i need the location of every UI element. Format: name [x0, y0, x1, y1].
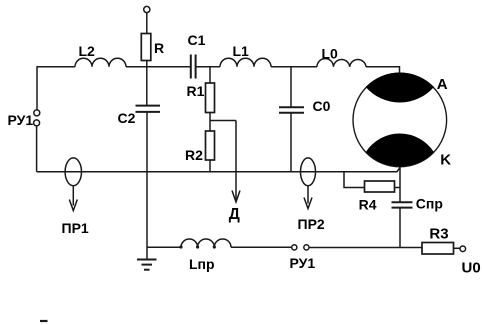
wire C0 to mid rail	[290, 113, 292, 172]
wire R4 to cathode line	[395, 187, 401, 189]
svg-text:K: K	[440, 151, 451, 168]
probe PR1 ellipse	[65, 158, 81, 186]
inductor L1	[220, 58, 271, 67]
svg-text:R1: R1	[187, 83, 205, 99]
inductor L0	[317, 59, 366, 67]
svg-text:R2: R2	[185, 147, 203, 163]
resistor R4 body	[365, 181, 395, 192]
wire top rail L0 to tube anode	[366, 67, 400, 74]
wire ground column	[146, 172, 148, 260]
wire R4 branch	[344, 172, 365, 188]
svg-text:Спр: Спр	[416, 195, 443, 211]
resistor R3 body	[422, 243, 454, 255]
svg-text:C2: C2	[118, 110, 136, 126]
resistor R body	[141, 34, 151, 61]
capacitor Cpr	[392, 202, 413, 207]
probe PR2 ellipse	[301, 158, 316, 186]
tube anode lens (filled)	[366, 73, 433, 102]
wire branch node D horizontal	[210, 120, 236, 122]
terminal circle PY1 upper	[34, 110, 40, 116]
wire bottom rail left segment	[147, 246, 181, 248]
arrow PR1	[69, 186, 77, 211]
svg-text:L2: L2	[79, 43, 96, 59]
terminal circle PY1 bottom left	[292, 245, 297, 250]
terminal circle PY1 lower	[34, 120, 40, 126]
resistor R terminal circle	[144, 6, 150, 12]
wire mid rail	[37, 168, 400, 172]
wire left vertical lower	[36, 126, 38, 172]
arrow PR2	[304, 186, 312, 209]
svg-text:Д: Д	[229, 206, 240, 223]
wire R body to top rail and down to C2	[146, 61, 148, 106]
resistor R2 body	[206, 131, 215, 160]
terminal circle PY1 bottom right	[304, 245, 309, 250]
junction dots Lpr	[179, 245, 216, 248]
inductor L2	[75, 58, 126, 67]
svg-text:РУ1: РУ1	[8, 112, 34, 128]
svg-text:L0: L0	[322, 46, 339, 62]
inductor Lpr	[181, 239, 231, 247]
wire C2 to mid rail	[146, 112, 148, 172]
wire top rail L1 to L0	[271, 66, 317, 68]
wire left vertical upper	[36, 66, 38, 110]
wire C0 junction down	[290, 67, 292, 107]
svg-text:U0: U0	[462, 260, 481, 277]
wire bottom rail to R3	[309, 247, 422, 249]
wire top rail L2 to C1	[126, 66, 191, 68]
capacitor C0	[279, 107, 304, 112]
wire R1 to R2	[209, 113, 211, 132]
svg-text:C1: C1	[188, 32, 206, 48]
tube cathode lens (filled)	[366, 134, 433, 166]
wire tube cathode down	[399, 167, 401, 202]
svg-text:ПР2: ПР2	[298, 216, 325, 232]
wire R3 to terminal	[454, 247, 461, 249]
capacitor C1	[191, 55, 196, 79]
terminal circle U0	[460, 246, 466, 252]
svg-text:A: A	[437, 76, 448, 93]
svg-text:R: R	[154, 40, 164, 56]
svg-text:R3: R3	[429, 225, 448, 242]
ground	[137, 260, 157, 270]
wire branch node D vertical	[235, 121, 237, 202]
caption dash	[40, 320, 48, 322]
svg-text:ПР1: ПР1	[62, 220, 89, 236]
wire top rail C1 to L1	[196, 66, 220, 68]
arrowhead node D	[232, 191, 240, 203]
svg-text:Lпр: Lпр	[189, 256, 215, 272]
svg-text:C0: C0	[313, 98, 331, 114]
svg-text:L1: L1	[233, 43, 250, 59]
wire top rail left segment	[37, 66, 75, 68]
wire Lpr to PY1 gap	[231, 246, 292, 248]
wire R2 to mid rail	[209, 160, 211, 172]
wire Cpr to bottom rail	[399, 208, 401, 248]
svg-text:R4: R4	[359, 196, 377, 212]
wire R terminal to body	[146, 13, 148, 34]
node junction at C1 right, wire down to R1	[209, 67, 211, 83]
tube envelope circle	[353, 73, 447, 167]
svg-text:РУ1: РУ1	[290, 255, 316, 271]
capacitor C2	[136, 106, 161, 112]
resistor R1 body	[206, 83, 215, 113]
